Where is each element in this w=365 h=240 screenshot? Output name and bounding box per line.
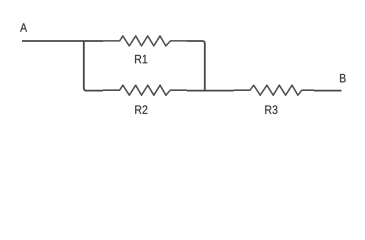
resistor R2	[103, 85, 187, 95]
label R3	[265, 105, 277, 114]
node A label	[20, 23, 27, 31]
resistor R1	[103, 36, 187, 46]
label R1	[135, 55, 147, 63]
node B label	[340, 74, 346, 82]
wire from R2 through right junction to R3	[187, 90, 234, 92]
wire from R1 to right vertical down to junction	[187, 41, 205, 91]
wire from node A to left junction	[22, 40, 103, 42]
wire from R3 to node B	[314, 90, 342, 92]
wire left branch vertical down to R2	[84, 41, 103, 91]
label R2	[135, 105, 147, 114]
resistor R3	[234, 85, 314, 95]
